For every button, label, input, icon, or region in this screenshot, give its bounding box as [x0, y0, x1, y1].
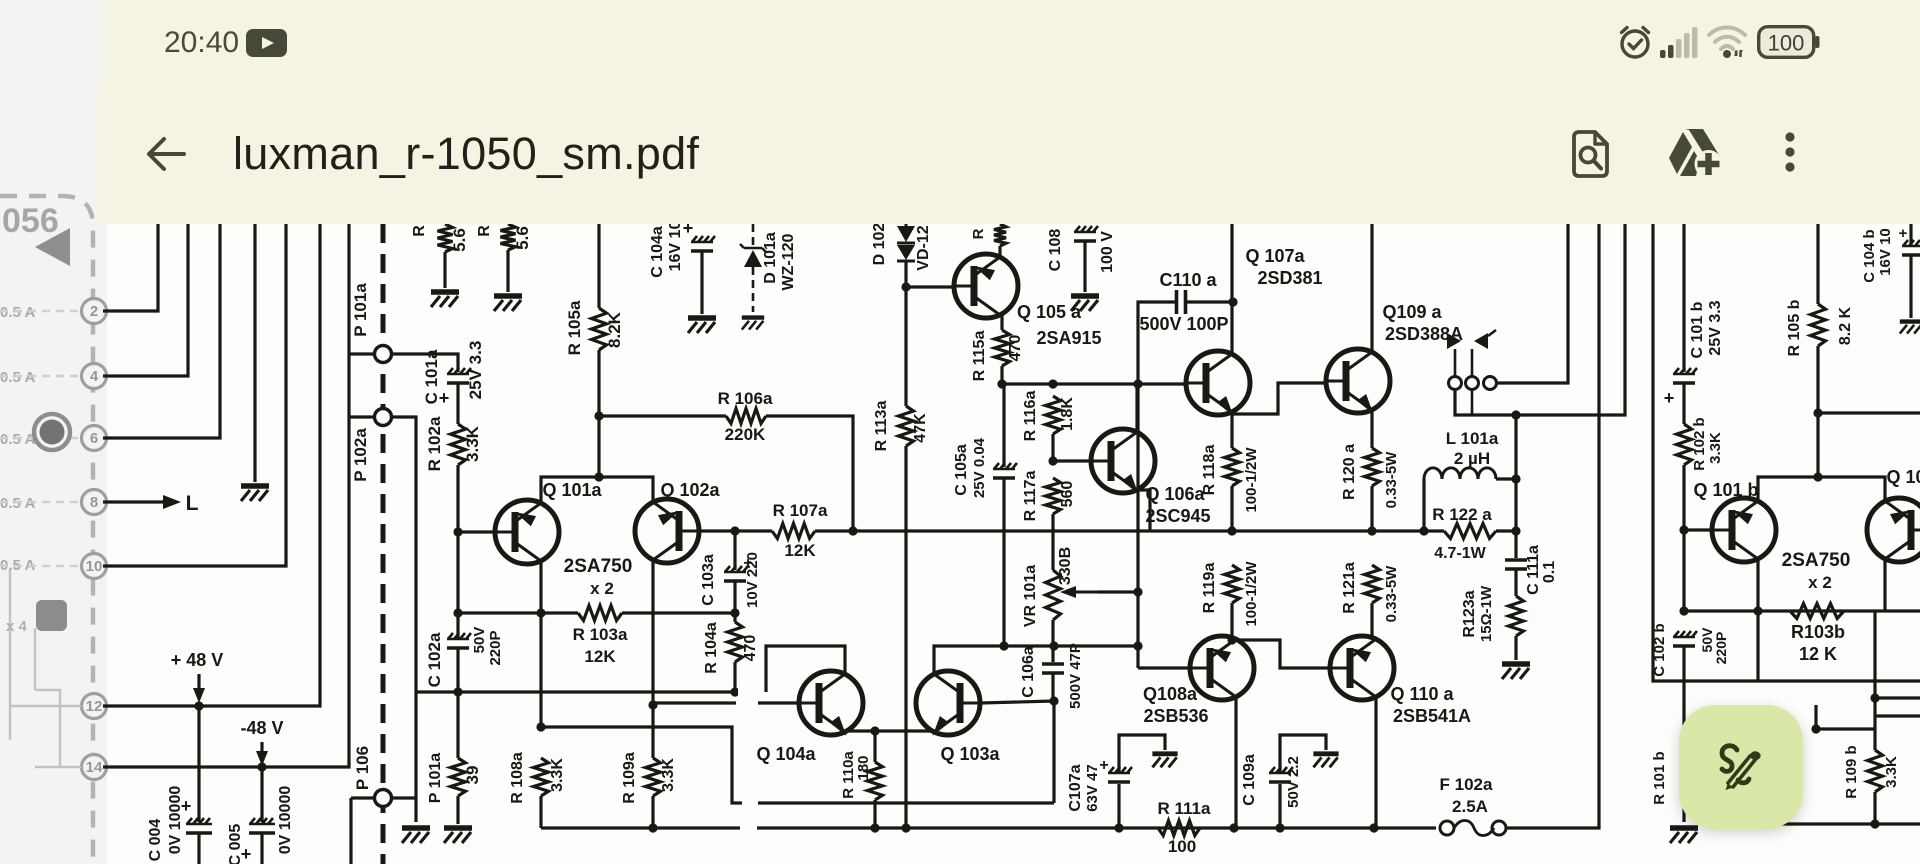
capacitor C109a — [1269, 767, 1293, 773]
svg-text:10: 10 — [86, 558, 103, 575]
wire to R122a right — [1514, 479, 1517, 531]
svg-text:2 µH: 2 µH — [1454, 449, 1490, 468]
junction R106b — [1813, 408, 1822, 417]
transistor Q104a — [799, 671, 863, 735]
wire to R109a — [651, 705, 654, 758]
svg-text:0.5 A: 0.5 A — [0, 495, 35, 512]
junction bottom rail Q110a — [1369, 823, 1378, 832]
wire R103a to junction — [622, 611, 735, 614]
svg-text:R: R — [970, 228, 987, 239]
wire C104b top — [1909, 224, 1912, 246]
wire R122a right — [1496, 529, 1516, 532]
connector pin 12 — [82, 694, 107, 719]
wire Q107a emitter to Q109a base — [1232, 383, 1325, 414]
wire C110a right to Q107a collector — [1186, 300, 1233, 303]
capacitor C102b — [1673, 631, 1697, 637]
wire Q109a collector to top — [1370, 224, 1373, 352]
connector pin 6 — [82, 426, 107, 451]
wire Q109a emitter to R120a — [1370, 410, 1373, 448]
svg-text:Q 107a: Q 107a — [1245, 246, 1305, 266]
status alarm icon — [1615, 24, 1655, 60]
wire 5.6L to ground — [443, 252, 446, 288]
junction Q101a collector — [536, 608, 545, 617]
svg-text:056: 056 — [2, 202, 59, 240]
svg-text:2SD381: 2SD381 — [1257, 268, 1322, 288]
junction D102 Q105a base — [901, 282, 910, 291]
toolbar back arrow — [144, 132, 188, 176]
junction Q101b collector — [1753, 606, 1762, 615]
svg-text:C107a: C107a — [1067, 764, 1084, 811]
svg-text:L 101a: L 101a — [1446, 429, 1499, 448]
wire Q104a emitter to Q103a emitter — [845, 731, 931, 732]
junction Q101a base — [453, 527, 462, 536]
svg-text:3.3K: 3.3K — [1883, 756, 1900, 788]
wire R105b down to tail — [1816, 346, 1819, 477]
svg-text:R 115a: R 115a — [971, 331, 988, 382]
wire to R101a — [456, 692, 459, 758]
node P102a — [375, 409, 392, 426]
svg-text:C 004: C 004 — [147, 819, 164, 862]
wire down to C102a — [456, 532, 459, 613]
svg-text:8.2 K: 8.2 K — [1837, 306, 1854, 345]
wire contact left — [1454, 349, 1457, 376]
resistor R110a — [868, 762, 883, 800]
svg-text:R 118a: R 118a — [1201, 445, 1218, 496]
wire C102a plate — [456, 613, 459, 639]
wire C107a to ground — [1119, 735, 1165, 773]
svg-text:R 120 a: R 120 a — [1341, 444, 1358, 500]
wire b-channel rail riser — [1653, 224, 1920, 681]
ground (R123a) — [1502, 661, 1530, 667]
wire rail to C107a — [1117, 784, 1120, 828]
wire to R109b — [1873, 698, 1876, 750]
svg-text:470: 470 — [1007, 335, 1024, 362]
faded page edge column — [0, 0, 107, 864]
ground (R101a) — [444, 825, 472, 831]
svg-text:x 2: x 2 — [1808, 573, 1832, 592]
svg-text:100-1/2W: 100-1/2W — [1243, 447, 1260, 513]
wire to C111a — [1514, 531, 1517, 558]
svg-text:R 117a: R 117a — [1022, 471, 1039, 522]
svg-text:0.5 A: 0.5 A — [0, 431, 35, 448]
svg-text:R 121a: R 121a — [1341, 562, 1358, 614]
svg-text:+: + — [181, 796, 192, 816]
wire R120a to rail — [1370, 486, 1373, 531]
resistor R103a — [578, 606, 622, 621]
svg-text:16V 10: 16V 10 — [1877, 228, 1894, 276]
wire P106 stub left — [351, 796, 374, 799]
svg-text:10V 220: 10V 220 — [744, 552, 761, 608]
junction R116a top — [1048, 379, 1057, 388]
junction bottom rail Q108a — [1229, 823, 1238, 832]
svg-text:C 101 b: C 101 b — [1689, 301, 1706, 358]
svg-text:+: + — [439, 388, 450, 408]
resistor R117a — [1046, 478, 1061, 514]
svg-text:C 102a: C 102a — [425, 632, 444, 687]
connector pin 2 — [82, 299, 107, 324]
wire R115a to main node — [1000, 366, 1003, 384]
wire L101a left down — [1422, 479, 1425, 531]
svg-text:R 107a: R 107a — [773, 501, 828, 520]
ground (D101a) — [742, 315, 764, 319]
svg-text:0.5 A: 0.5 A — [0, 369, 35, 386]
resistor R120a — [1365, 448, 1380, 486]
status signal bars — [1660, 24, 1704, 60]
ground (C104a) — [688, 315, 716, 321]
dashed border of adjacent sheet — [0, 196, 93, 864]
svg-text:0.33-5W: 0.33-5W — [1383, 451, 1400, 509]
svg-text:D 102: D 102 — [871, 223, 888, 266]
wire C111a to R123a — [1514, 569, 1517, 596]
junction wiper tee — [1133, 587, 1142, 596]
svg-text:x 4: x 4 — [6, 618, 28, 635]
svg-text:Q 101a: Q 101a — [542, 480, 602, 500]
junction Q106a base — [1048, 456, 1057, 465]
svg-text:25V 3.3: 25V 3.3 — [466, 341, 485, 400]
capacitor C105a — [993, 463, 1017, 469]
status youtube icon — [246, 29, 287, 57]
wire R103b rail — [1684, 609, 1920, 612]
wire Q103a base to C106a node — [981, 701, 1054, 703]
svg-text:+ 48 V: + 48 V — [171, 650, 224, 670]
svg-text:R 106a: R 106a — [718, 389, 773, 408]
wire bottom rail — [541, 826, 1436, 829]
resistor R123a — [1509, 596, 1524, 636]
svg-text:100 V: 100 V — [1099, 231, 1116, 273]
wire C101a to R102a — [456, 383, 459, 424]
junction rail R120a — [1367, 526, 1376, 535]
wire R110a to rail — [873, 800, 876, 828]
wire R102b to Q101b base — [1682, 465, 1685, 530]
wire y716 right — [1875, 714, 1920, 717]
junction C110a collector — [1228, 297, 1237, 306]
wire contact mid — [1471, 349, 1474, 376]
wire to R106a — [599, 414, 726, 417]
svg-text:6: 6 — [90, 430, 98, 447]
transistor Q105a — [954, 254, 1018, 318]
svg-text:0.1: 0.1 — [1541, 561, 1558, 583]
resistor R119a — [1225, 565, 1240, 603]
junction R106a left — [594, 411, 603, 420]
wire C004 lead down — [197, 833, 200, 864]
resistor R116a — [1046, 396, 1061, 434]
resistor R107a — [772, 524, 815, 539]
svg-text:5.6: 5.6 — [450, 228, 469, 252]
wire contact mid down — [1471, 390, 1474, 415]
wire R118a to rail — [1230, 486, 1233, 531]
wire pin12 to bus riser — [103, 224, 320, 706]
toolbar search-in-document icon — [1572, 130, 1609, 178]
diode D101a (zener, dashed) — [752, 224, 755, 246]
capacitor C108 — [1074, 226, 1098, 232]
svg-text:220P: 220P — [487, 630, 504, 665]
svg-text:R 105a: R 105a — [565, 300, 584, 355]
wire main y384 — [1002, 382, 1185, 385]
transistor Q101a — [495, 500, 559, 564]
wire D102 cathode line upper — [904, 261, 907, 406]
junction Q108a collector step — [1227, 635, 1236, 644]
svg-text:R 119a: R 119a — [1201, 563, 1218, 614]
wire top to C101b — [1682, 224, 1685, 372]
wire C005 lead down — [260, 833, 263, 864]
svg-text:P 106: P 106 — [353, 746, 372, 790]
svg-text:2SB541A: 2SB541A — [1393, 706, 1471, 726]
wire +48V to C004 — [197, 706, 200, 822]
svg-text:C 104 b: C 104 b — [1861, 229, 1878, 282]
svg-text:100: 100 — [1768, 31, 1805, 56]
junction R110a top — [870, 726, 879, 735]
connector pin 14 — [82, 755, 107, 780]
wire to Q106a base — [1053, 459, 1091, 462]
connector pin 4 — [82, 364, 107, 389]
junction C102b top — [1679, 606, 1688, 615]
junction L101a right — [1511, 474, 1520, 483]
ground (R101b) — [1670, 825, 1698, 831]
svg-text:8.2K: 8.2K — [605, 311, 624, 348]
svg-text:C 102 b: C 102 b — [1651, 623, 1668, 676]
junction bottom b — [1870, 819, 1879, 828]
junction R107a right — [848, 526, 857, 535]
wire -48V to C005 — [260, 767, 263, 822]
wire R104a to rail — [733, 662, 736, 692]
svg-text:R 109a: R 109a — [621, 752, 638, 804]
wire R117a to rail / VR101a — [1051, 514, 1054, 570]
junction main wire left end — [997, 379, 1006, 388]
junction R122a left — [1419, 526, 1428, 535]
svg-text:P 102a: P 102a — [351, 428, 370, 482]
wire C110a left to Q108a base line — [1138, 302, 1176, 668]
svg-text:220K: 220K — [725, 425, 766, 444]
svg-text:Q 102a: Q 102a — [660, 480, 720, 500]
svg-text:Q 104a: Q 104a — [756, 744, 816, 764]
wire to R104a — [733, 613, 736, 622]
wire R105a to tail node — [597, 350, 600, 477]
toolbar title — [233, 128, 699, 180]
wire Q108a emitter to rail — [1234, 697, 1237, 828]
svg-text:C110 a: C110 a — [1159, 270, 1217, 290]
wire rail to C109a — [1278, 784, 1281, 828]
wire pin10 to bus riser — [103, 224, 286, 566]
toolbar overflow menu — [1783, 130, 1797, 178]
ground (5.6 right) — [494, 293, 522, 299]
wire pin6 to bus riser — [103, 224, 220, 438]
ground (C104b) — [1900, 319, 1920, 323]
capacitor C103a — [724, 566, 748, 572]
svg-text:2SA750: 2SA750 — [1782, 550, 1851, 571]
resistor R104a — [728, 622, 743, 662]
scan crease gaps — [738, 688, 758, 696]
wire VR101a wiper — [1098, 590, 1138, 593]
svg-text:2SA750: 2SA750 — [564, 556, 633, 577]
junction C105a bottom — [999, 641, 1008, 650]
svg-text:C 104a: C 104a — [649, 226, 666, 278]
resistor R108a — [534, 758, 549, 796]
junction ground rail C102a — [453, 687, 462, 696]
svg-text:R123a: R123a — [1461, 590, 1478, 637]
junction b tail — [1813, 472, 1822, 481]
svg-text:C 108: C 108 — [1047, 229, 1064, 272]
wire ground rail — [416, 690, 735, 693]
svg-text:Q 101 b: Q 101 b — [1693, 480, 1758, 500]
capacitor C101a — [447, 368, 471, 374]
wire top to R105b — [1816, 224, 1819, 304]
wire C102b down to ground — [1682, 646, 1685, 822]
capacitor C107a — [1108, 767, 1132, 773]
wire R101a to ground — [456, 796, 459, 824]
wire R107a to C103a — [733, 531, 736, 570]
svg-text:C 103a: C 103a — [700, 554, 717, 606]
capacitor C104a — [691, 236, 715, 242]
wire dashed connector line P10x — [381, 224, 386, 864]
wire Q110a emitter to rail — [1374, 697, 1377, 828]
svg-text:4: 4 — [90, 368, 99, 385]
svg-text:25V 0.04: 25V 0.04 — [971, 437, 988, 498]
fuse F102a — [1440, 821, 1454, 835]
resistor R102a — [451, 424, 466, 465]
svg-text:VR 101a: VR 101a — [1022, 565, 1039, 627]
svg-text:+: + — [1899, 225, 1908, 242]
resistor R105a — [592, 308, 607, 350]
resistor R115a — [995, 330, 1010, 366]
junction bottom rail C109a — [1275, 823, 1284, 832]
wire Q105a collector to R115a — [1000, 315, 1002, 330]
wire C103a to R103a node — [733, 581, 736, 613]
svg-text:P 101a: P 101a — [351, 283, 370, 337]
potentiometer VR101a — [1046, 570, 1061, 620]
svg-text:500V 47P: 500V 47P — [1067, 643, 1084, 709]
wire +48V arrow stem — [197, 674, 200, 697]
wire C102a to ground rail — [456, 648, 459, 692]
svg-text:3.3K: 3.3K — [660, 758, 677, 792]
junction bottom rail R110a — [870, 823, 879, 832]
svg-text:R: R — [411, 225, 428, 237]
ground (C108) — [1071, 293, 1099, 299]
svg-text:0.5 A: 0.5 A — [0, 304, 35, 321]
svg-text:R 103a: R 103a — [573, 625, 628, 644]
wire C104a to ground — [700, 251, 703, 314]
svg-text:+: + — [1664, 388, 1675, 408]
junction Q103a base node — [1049, 696, 1058, 705]
resistor R(5.6) right — [501, 224, 516, 250]
wire D102 cathode line lower — [904, 446, 907, 828]
wire b diff pair emitters — [1758, 477, 1885, 501]
svg-text:x 2: x 2 — [590, 579, 614, 598]
svg-text:12: 12 — [86, 698, 103, 715]
transistor Q109a — [1326, 349, 1390, 413]
svg-text:3.3K: 3.3K — [1707, 432, 1724, 464]
wire L101a right — [1496, 477, 1516, 480]
junction rail R118a — [1227, 526, 1236, 535]
ground (P102a line) — [402, 825, 430, 831]
wire to R110a — [873, 731, 876, 762]
svg-text:5.6: 5.6 — [513, 226, 532, 250]
svg-text:R 108a: R 108a — [509, 752, 526, 804]
transistor Q108a — [1190, 636, 1254, 700]
wire feedback loop bottom — [541, 727, 1054, 803]
junction C111a top — [1511, 526, 1520, 535]
wire Q103a collector top wire — [934, 646, 1138, 674]
svg-text:R 109 b: R 109 b — [1843, 745, 1860, 798]
svg-text:VD-12: VD-12 — [915, 225, 932, 270]
junction diff pair tail — [594, 472, 603, 481]
wire bottom rail b — [1782, 822, 1920, 825]
junction R109b top — [1870, 693, 1879, 702]
transistor Q106a — [1091, 429, 1155, 493]
wire main node to C105a — [1002, 384, 1005, 467]
wire P106 to ground line — [392, 796, 416, 799]
svg-text:12K: 12K — [784, 541, 816, 560]
wire C105a down to collector wire — [1002, 478, 1005, 646]
wire to Q104a base — [653, 701, 798, 704]
transistor Q110a — [1330, 636, 1394, 700]
svg-text:C 105a: C 105a — [953, 444, 970, 496]
wire pin2 to bus riser — [103, 224, 158, 311]
wire diff pair emitters — [541, 477, 653, 503]
svg-text:16V 10: 16V 10 — [667, 221, 684, 272]
wire pin4 to bus riser — [103, 224, 188, 376]
resistor R122a — [1444, 524, 1496, 539]
svg-text:P 101a: P 101a — [427, 753, 444, 804]
diode D102 — [897, 224, 915, 261]
wire to Q105a base — [906, 285, 953, 288]
svg-text:Q 10: Q 10 — [1886, 467, 1920, 487]
touch indicator ring — [34, 414, 70, 450]
svg-text:15Ω-1W: 15Ω-1W — [1478, 585, 1495, 642]
wire to Q101b base — [1684, 528, 1712, 531]
connector circles — [1449, 377, 1462, 390]
svg-text:R 113a: R 113a — [873, 401, 890, 452]
svg-text:C 106a: C 106a — [1020, 646, 1037, 698]
capacitor C106a — [1042, 664, 1064, 673]
transistor Q102a — [635, 499, 699, 563]
svg-text:R 102 b: R 102 b — [1691, 417, 1708, 470]
app header (status bar area) — [106, 0, 1920, 82]
resistor R(5.6) left — [438, 224, 453, 252]
toolbar drive-add icon — [1669, 129, 1723, 181]
wire VR101a to C106a — [1051, 620, 1054, 662]
svg-text:Q 110 a: Q 110 a — [1390, 684, 1454, 704]
capacitor C005 — [249, 818, 275, 824]
capacitor C111a — [1505, 560, 1527, 569]
wire 5.6R to ground — [506, 250, 509, 292]
junction C103a top — [730, 526, 739, 535]
wire C109a to ground — [1280, 735, 1326, 773]
svg-text:R 105 b: R 105 b — [1786, 299, 1803, 356]
svg-text:0V 10000: 0V 10000 — [277, 786, 294, 855]
svg-text:L: L — [186, 492, 199, 515]
svg-text:D 101a: D 101a — [762, 232, 779, 284]
resistor R114a (top, cut by header) — [994, 224, 1006, 246]
wire node to L101a — [1514, 415, 1517, 479]
svg-text:0.33-5W: 0.33-5W — [1383, 565, 1400, 623]
wire to Q108a base — [1138, 666, 1190, 669]
wire fuse to supply riser — [1506, 224, 1599, 828]
faint gray wires — [0, 311, 81, 566]
wire contacts to L101a node — [1455, 224, 1625, 415]
ground (C109a) — [1313, 751, 1338, 756]
junction C110a line cross — [1133, 379, 1142, 388]
resistor R109a — [646, 758, 661, 796]
junction bottom rail R109a — [648, 823, 657, 832]
svg-text:F 102a: F 102a — [1440, 775, 1493, 794]
svg-text:25V 3.3: 25V 3.3 — [1707, 300, 1724, 355]
floating action button (annotate) — [1679, 705, 1803, 829]
svg-text:R 104a: R 104a — [703, 622, 720, 674]
svg-text:4.7-1W: 4.7-1W — [1434, 545, 1486, 562]
svg-text:180: 180 — [855, 755, 872, 780]
svg-text:2SC945: 2SC945 — [1145, 506, 1210, 526]
svg-text:14: 14 — [86, 759, 103, 776]
